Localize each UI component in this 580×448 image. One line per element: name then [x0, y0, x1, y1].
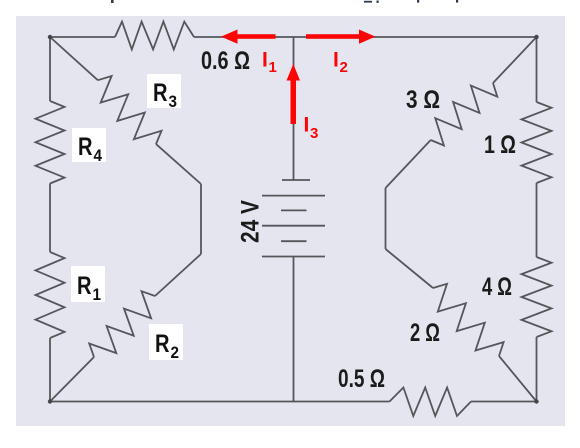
battery long plate 2: [262, 225, 325, 227]
svg-text:2: 2: [340, 59, 348, 76]
svg-text:1: 1: [93, 285, 102, 304]
svg-text:I: I: [333, 49, 339, 72]
resistor 2 ohm: [433, 284, 504, 356]
wire right outer bottom: [536, 337, 538, 402]
resistor 1 ohm: [522, 102, 552, 183]
wire top middle-left segment: [194, 36, 293, 38]
svg-text:R: R: [77, 272, 92, 300]
svg-text:2: 2: [171, 343, 180, 362]
resistor R3: [98, 76, 162, 144]
battery short plate 1: [281, 209, 307, 211]
svg-text:24 V: 24 V: [237, 200, 265, 243]
label I1: [262, 49, 277, 77]
resistor 3 ohm: [431, 83, 498, 146]
wire bottom right segment: [471, 401, 537, 403]
current arrow I2: [306, 30, 376, 44]
node bottom-right: [534, 399, 538, 403]
svg-text:I: I: [262, 49, 268, 72]
label box R3: [147, 74, 181, 111]
node top-left: [48, 35, 52, 39]
wire diagonal 2 ohm to bottom-right: [499, 356, 537, 402]
resistor 4 ohm: [522, 257, 552, 337]
wire left outer top: [49, 37, 51, 101]
wire top middle-right segment: [293, 36, 537, 38]
svg-text:3: 3: [310, 125, 318, 142]
battery short plate 2: [281, 240, 307, 242]
wire diagonal top-left to R3: [50, 37, 98, 80]
label box R2: [149, 324, 183, 362]
wire right outer top: [536, 37, 538, 102]
wire diagonal left mid to R2: [155, 254, 201, 296]
resistor 0.5 ohm: [390, 388, 472, 417]
current arrow I3: [287, 64, 301, 124]
cut-off text descender marks at top: [111, 0, 458, 3]
battery U1 long plate 1: [262, 195, 325, 197]
svg-text:0.6 Ω: 0.6 Ω: [201, 47, 250, 75]
resistor R4: [36, 101, 65, 184]
wire center top to battery: [293, 37, 295, 180]
svg-text:3 Ω: 3 Ω: [406, 86, 440, 114]
resistor R2: [89, 291, 155, 357]
svg-text:4: 4: [94, 146, 103, 165]
svg-text:1 Ω: 1 Ω: [484, 131, 516, 159]
battery top terminal bar: [282, 179, 310, 181]
wire diagonal 3 ohm to right mid node: [386, 140, 431, 188]
resistor R1: [36, 252, 65, 338]
svg-text:0.5 Ω: 0.5 Ω: [338, 365, 385, 393]
wire battery to bottom: [293, 257, 295, 402]
svg-text:I: I: [304, 114, 310, 137]
wire right mid vertical: [385, 188, 387, 249]
svg-text:R: R: [155, 330, 170, 358]
wire left mid vertical: [200, 184, 202, 254]
wire left outer bottom: [49, 338, 51, 402]
svg-text:1: 1: [269, 59, 277, 76]
node top-right: [534, 35, 538, 39]
wire diagonal R3 to left mid node: [156, 144, 201, 184]
wire diagonal R2 to bottom-left: [50, 357, 94, 402]
wire diagonal top-right to 3 ohm: [493, 37, 537, 83]
wire right outer middle: [536, 183, 538, 257]
battery long plate 3: [262, 256, 325, 258]
wire top-left to resistor 0.6: [50, 36, 115, 38]
svg-text:4 Ω: 4 Ω: [482, 273, 512, 301]
svg-text:R: R: [78, 133, 93, 161]
wire bottom left segment: [50, 401, 390, 403]
label box R1: [71, 266, 105, 304]
svg-text:3: 3: [169, 92, 178, 111]
label I2: [333, 49, 348, 77]
wire left outer middle: [49, 184, 51, 253]
label box R4: [72, 128, 106, 165]
node bottom-left: [48, 399, 52, 403]
svg-text:R: R: [153, 79, 168, 107]
current arrow I1: [221, 30, 276, 44]
resistor 0.6 ohm: [115, 22, 194, 50]
wire diagonal right mid to 2 ohm: [386, 249, 434, 288]
label I3: [304, 114, 319, 143]
svg-text:2 Ω: 2 Ω: [410, 319, 440, 347]
